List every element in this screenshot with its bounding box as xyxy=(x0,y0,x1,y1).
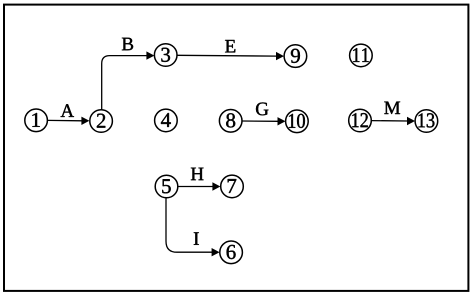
node 9 xyxy=(284,45,307,68)
label M xyxy=(384,102,400,114)
label H xyxy=(191,168,204,180)
wire: arrow A from node 1 to node 2 xyxy=(48,117,90,125)
node 11 xyxy=(350,44,373,67)
node 7 xyxy=(221,175,244,198)
node 6 xyxy=(220,241,243,264)
wire: arrow G from node 8 to node 10 xyxy=(242,117,285,125)
node 3 xyxy=(154,44,177,67)
node 5 xyxy=(155,175,178,198)
wire: arrow E from node 3 to node 9 xyxy=(177,52,284,60)
node 1 xyxy=(25,109,48,132)
wire: elbow arrow I from node 5 down to node 6 xyxy=(166,198,220,257)
label E xyxy=(225,40,235,52)
node 8 xyxy=(219,110,242,133)
label A xyxy=(61,104,74,117)
wire: elbow arrow B from node 2 up to node 3 xyxy=(102,51,155,109)
wire: arrow M from node 12 to node 13 xyxy=(371,117,415,125)
node 13 xyxy=(415,110,438,133)
label G xyxy=(256,103,268,116)
wire: arrow H from node 5 to node 7 xyxy=(178,182,220,190)
label I xyxy=(194,232,199,244)
node 4 xyxy=(155,109,178,132)
node 2 xyxy=(90,110,113,133)
node 10 xyxy=(286,110,309,133)
label B xyxy=(122,38,133,50)
node 12 xyxy=(349,109,372,132)
